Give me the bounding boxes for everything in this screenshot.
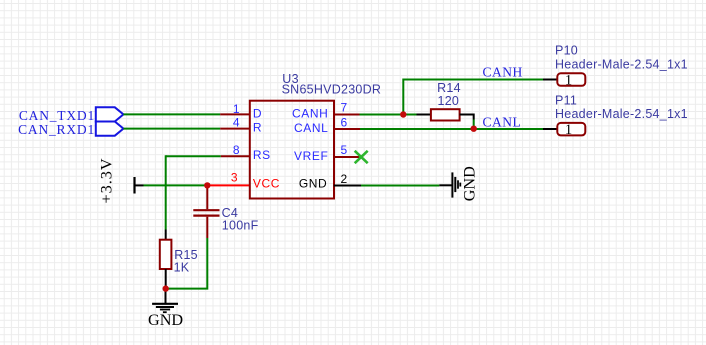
- no-ERC cross on VREF: [355, 151, 368, 163]
- svg-text:100nF: 100nF: [222, 219, 259, 233]
- pin 2 GND: [299, 172, 361, 191]
- svg-text:CANL: CANL: [294, 121, 328, 135]
- pin 6 CANL: [294, 115, 360, 135]
- wire RXD to pin4: [123, 128, 220, 130]
- header P10: [543, 44, 688, 89]
- wire TXD to pin1: [123, 113, 220, 115]
- IC U3 SN65HVD230DR: [250, 72, 381, 199]
- svg-text:GND: GND: [148, 311, 183, 329]
- svg-text:1K: 1K: [174, 261, 190, 275]
- resistor R14: [403, 81, 473, 128]
- svg-text:7: 7: [341, 100, 348, 114]
- wire CANH up and right to P10: [403, 80, 543, 115]
- pin 3 VCC: [231, 170, 280, 190]
- svg-text:CANH: CANH: [292, 107, 328, 121]
- pin 1 D: [220, 102, 262, 120]
- wire +3.3V to VCC node: [144, 184, 208, 186]
- svg-text:5: 5: [341, 143, 348, 157]
- svg-text:1: 1: [565, 72, 572, 88]
- svg-text:VREF: VREF: [294, 149, 328, 163]
- svg-text:2: 2: [341, 172, 348, 186]
- svg-text:120: 120: [438, 94, 460, 108]
- junction at VCC node: [204, 182, 210, 188]
- wire VCC node to pin3 (red): [207, 184, 250, 186]
- port CAN_TXD1: [19, 107, 124, 123]
- svg-text:Header-Male-2.54_1x1: Header-Male-2.54_1x1: [555, 107, 688, 121]
- pin 5 VREF: [294, 143, 361, 163]
- junction at R15/C4 gnd node: [163, 285, 169, 291]
- svg-text:+3.3V: +3.3V: [98, 157, 116, 203]
- svg-text:1: 1: [565, 122, 572, 138]
- wire RS net vertical down to R15: [165, 155, 167, 229]
- port CAN_RXD1: [18, 122, 123, 138]
- svg-text:D: D: [253, 106, 262, 120]
- svg-text:P11: P11: [555, 94, 577, 108]
- pin 7 CANH: [292, 100, 360, 120]
- svg-text:8: 8: [233, 143, 240, 157]
- svg-text:R14: R14: [437, 81, 461, 95]
- svg-text:RS: RS: [253, 148, 271, 162]
- svg-text:GND: GND: [299, 176, 327, 190]
- svg-text:4: 4: [233, 116, 240, 130]
- svg-text:VCC: VCC: [253, 176, 280, 190]
- wire pin7 to junction: [360, 114, 404, 116]
- svg-text:3: 3: [231, 170, 238, 184]
- svg-text:GND: GND: [461, 166, 479, 201]
- ground GND (right, rotated): [439, 166, 478, 201]
- header P11: [543, 94, 688, 138]
- pin 4 R: [220, 116, 262, 135]
- pin 8 RS: [221, 143, 271, 162]
- power +3.3V: [98, 157, 144, 203]
- svg-text:R: R: [253, 121, 262, 135]
- svg-text:CAN_RXD1: CAN_RXD1: [18, 122, 95, 137]
- svg-text:P10: P10: [555, 44, 578, 58]
- junction R14/CANL: [471, 126, 477, 132]
- ground GND (bottom left): [148, 289, 183, 330]
- svg-text:Header-Male-2.54_1x1: Header-Male-2.54_1x1: [555, 57, 688, 71]
- svg-text:CANL: CANL: [483, 114, 522, 129]
- wire RS net horizontal: [166, 155, 221, 157]
- capacitor C4: [193, 185, 258, 238]
- wire pin6/CANL to P11: [360, 128, 543, 130]
- svg-text:1: 1: [233, 102, 240, 116]
- svg-text:CAN_TXD1: CAN_TXD1: [19, 108, 95, 123]
- svg-text:6: 6: [341, 115, 348, 129]
- wire pin2 to GND: [361, 185, 439, 187]
- wire C4 bottom to gnd node: [166, 238, 208, 289]
- svg-text:SN65HVD230DR: SN65HVD230DR: [282, 82, 382, 96]
- junction CANH/R14: [400, 111, 406, 117]
- resistor R15: [160, 230, 198, 289]
- svg-text:CANH: CANH: [483, 65, 523, 80]
